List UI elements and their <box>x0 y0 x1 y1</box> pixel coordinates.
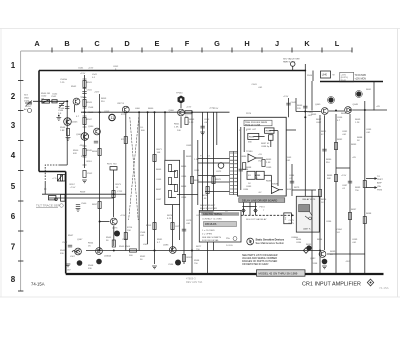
svg-text:R643: R643 <box>297 105 303 107</box>
wire sub vertical <box>44 181 46 194</box>
svg-text:C541: C541 <box>78 68 84 70</box>
svg-text:G: G <box>214 39 220 48</box>
svg-text:P№: P№ <box>226 237 230 240</box>
label E col mid <box>157 149 163 154</box>
resistor R574 <box>112 191 115 198</box>
svg-text:C542: C542 <box>52 94 58 96</box>
wire vertical x133.8 <box>138 112 140 223</box>
svg-text:1.8K: 1.8K <box>60 130 65 132</box>
svg-text:J: J <box>275 39 279 48</box>
svg-text:C652: C652 <box>113 66 119 68</box>
svg-text:R684: R684 <box>243 169 249 171</box>
svg-text:1MΩ: 1MΩ <box>24 98 29 100</box>
spine tick marks C column <box>83 79 87 165</box>
resistor R671 on x154.5 <box>153 155 156 162</box>
wire below attenuator left <box>172 205 174 251</box>
svg-text:R598: R598 <box>194 260 200 262</box>
svg-text:R657: R657 <box>92 204 98 206</box>
wire Q575 column to bottom <box>113 240 115 246</box>
svg-text:C688 5p: C688 5p <box>261 146 270 148</box>
svg-text:C692: C692 <box>342 131 348 133</box>
svg-text:DELAY LINE DRIVER BOARD: DELAY LINE DRIVER BOARD <box>242 198 277 202</box>
svg-text:1M: 1M <box>41 99 44 101</box>
dashed signal line to gray box <box>241 214 294 216</box>
labels near input extra <box>41 94 64 116</box>
svg-text:Q554: Q554 <box>88 126 94 128</box>
svg-text:+15V: +15V <box>186 107 192 109</box>
svg-text:VERT: VERT <box>377 179 383 181</box>
input connector J540 circle <box>28 109 32 113</box>
label C568 <box>140 232 146 237</box>
transistor Q575 <box>110 218 117 225</box>
resistor inside R683 <box>262 160 265 167</box>
svg-text:TILT TRACE SEP: TILT TRACE SEP <box>36 204 60 208</box>
ring around TP648 <box>355 91 362 98</box>
svg-text:+50V: +50V <box>94 92 100 94</box>
labels under Q545 <box>60 127 66 132</box>
wire segment y168 right <box>336 167 350 169</box>
attenuator internal taps <box>170 172 176 198</box>
label R649 <box>355 119 361 124</box>
transistor Q596 <box>169 247 176 254</box>
big box inner rect A <box>248 133 259 139</box>
svg-text:R547: R547 <box>87 119 93 121</box>
svg-text:R645: R645 <box>311 114 317 116</box>
label R685 <box>327 175 333 180</box>
gray box inner dark rect 2 <box>305 212 312 220</box>
label +5V sel <box>352 239 358 244</box>
resistor R571 horizontal <box>110 167 117 170</box>
svg-text:TP680: TP680 <box>246 151 253 153</box>
svg-text:R687 62: R687 62 <box>261 143 270 145</box>
capacitor C687 <box>348 181 352 183</box>
svg-text:R689: R689 <box>355 187 361 189</box>
wire sub left loop <box>45 165 60 181</box>
label +15V line2 <box>333 75 349 82</box>
svg-text:REV JAN 73A: REV JAN 73A <box>186 280 203 284</box>
svg-text:R550: R550 <box>73 150 79 152</box>
label R565 <box>119 246 131 248</box>
label R573 <box>116 184 122 189</box>
svg-text:CR1 INPUT AMPLIFIER: CR1 INPUT AMPLIFIER <box>302 281 361 287</box>
svg-text:C669: C669 <box>186 145 192 147</box>
svg-text:R541: R541 <box>87 82 93 84</box>
label group near 196,220 <box>167 215 173 220</box>
wire Q575 collector <box>113 226 115 240</box>
svg-text:R540 1M: R540 1M <box>41 93 50 95</box>
label Q648 <box>353 104 359 106</box>
gray box inner dark rect 1 <box>299 205 310 212</box>
wire pair lower y198 <box>49 197 114 199</box>
svg-text:R573: R573 <box>116 184 122 186</box>
op-amp U680A <box>248 154 256 162</box>
notes paragraph <box>242 254 278 266</box>
label mid right H col <box>289 175 295 180</box>
switch contact circle <box>55 198 58 201</box>
circled number after label <box>60 204 64 208</box>
svg-text:PARTS LIST: PARTS LIST <box>283 60 296 63</box>
label right col extra 3 <box>326 159 332 164</box>
test point TP575 dark <box>114 231 120 237</box>
resistor R560 box lower on border <box>61 194 65 201</box>
shaded note box bottom <box>257 270 306 276</box>
attenuator internal resistor 2 <box>168 178 171 185</box>
svg-text:R674: R674 <box>167 215 173 217</box>
svg-text:R677: R677 <box>196 246 202 248</box>
transistor Q540 input fet <box>73 98 80 105</box>
wire feed from x67 to sub <box>60 164 67 166</box>
transistor Q564 <box>96 248 103 255</box>
svg-text:R669: R669 <box>186 156 192 158</box>
svg-text:R714: R714 <box>127 227 133 229</box>
big box left pin strip col1 <box>230 153 233 193</box>
label cluster gate divider <box>76 107 94 118</box>
resistor R713b <box>124 137 127 144</box>
resistor R545 vertical <box>66 129 69 136</box>
svg-text:U680: U680 <box>241 156 247 158</box>
test point below Q567 <box>77 260 83 266</box>
capacitor C542 trimmer <box>52 100 57 103</box>
delay line curve 1 <box>130 117 138 220</box>
label R664 <box>185 107 192 119</box>
labels mid band extra <box>101 98 154 116</box>
transistor Q645 <box>321 108 328 115</box>
schematic frame notch vertical <box>65 172 67 274</box>
svg-text:VIA: VIA <box>377 185 381 188</box>
svg-text:+15V MON: +15V MON <box>355 79 367 81</box>
resistor R547 <box>83 118 86 125</box>
svg-text:+15V: +15V <box>120 215 126 217</box>
svg-text:1: 1 <box>11 61 16 70</box>
label under dashed line <box>246 218 267 221</box>
svg-text:R684: R684 <box>317 239 323 241</box>
label +15V line1 <box>340 72 354 82</box>
capacitor C645 on K column <box>303 106 307 108</box>
test point TP645 dark <box>328 97 333 102</box>
svg-text:74-15A: 74-15A <box>31 281 45 286</box>
test point hex TP660 <box>178 96 185 104</box>
svg-text:L660: L660 <box>135 108 141 110</box>
big box extra internal text rows <box>246 129 272 194</box>
svg-text:11: 11 <box>111 116 115 120</box>
attenuator second column rects <box>174 171 177 178</box>
wire vertical x365 <box>364 101 366 273</box>
svg-text:14 JUL: 14 JUL <box>226 245 234 247</box>
svg-text:C548: C548 <box>88 107 94 109</box>
svg-text:+15V: +15V <box>88 68 94 70</box>
wire into box y175.5 <box>198 175 230 177</box>
label G col under bus <box>204 119 210 124</box>
transistor Q554 <box>94 128 101 135</box>
svg-text:C684A: C684A <box>291 236 298 239</box>
svg-text:P674: P674 <box>260 207 266 209</box>
label C684 bottom <box>337 229 343 234</box>
wire input line <box>39 100 67 102</box>
svg-text:Q548: Q548 <box>76 134 82 136</box>
wire branch to Q575 <box>100 221 110 223</box>
svg-text:L541: L541 <box>92 74 98 76</box>
wire x213 lower <box>213 242 215 251</box>
svg-text:P695: P695 <box>377 190 383 192</box>
tick marks above frame C-D <box>113 66 119 71</box>
labels near top right transistor bases <box>311 113 347 116</box>
svg-text:C695: C695 <box>366 129 372 131</box>
svg-text:L565: L565 <box>143 244 149 246</box>
svg-text:R551: R551 <box>87 161 93 163</box>
wire pair upper y194.2 <box>42 193 114 195</box>
gnd on x324 bottom <box>322 266 327 269</box>
wire x197.8 vertical <box>197 140 199 205</box>
svg-text:R681: R681 <box>249 137 255 139</box>
svg-text:U680B: U680B <box>271 184 278 186</box>
svg-text:R678: R678 <box>216 179 222 181</box>
svg-text:R699: R699 <box>330 251 336 253</box>
label R641 <box>366 89 372 91</box>
label between attn and note <box>196 215 202 217</box>
grid ruler horizontal line <box>21 50 352 52</box>
svg-text:TO R.PWR: TO R.PWR <box>355 75 367 77</box>
wire opamp A out <box>256 157 263 159</box>
pin diamond 2 <box>254 209 257 213</box>
wire inside box vertical 1 <box>240 127 242 190</box>
junction to big box top <box>286 129 296 131</box>
label right of x192 lower <box>196 246 202 251</box>
note circled P <box>233 237 237 241</box>
node arrow into frame <box>33 100 39 102</box>
svg-text:R692: R692 <box>337 139 343 141</box>
svg-text:L567: L567 <box>70 256 76 258</box>
label AC left of note box <box>225 210 230 216</box>
svg-text:R564: R564 <box>88 243 94 245</box>
svg-text:C560: C560 <box>81 203 87 205</box>
svg-text:K: K <box>304 39 310 48</box>
svg-text:62K: 62K <box>73 153 77 155</box>
svg-text:1.2K: 1.2K <box>194 159 199 161</box>
inside box resistor <box>243 163 246 170</box>
label left of Q692 <box>312 263 318 265</box>
gnd bottom mid <box>152 266 157 269</box>
label F col low <box>186 220 192 225</box>
svg-text:R655: R655 <box>146 225 152 227</box>
label C567 <box>62 242 68 244</box>
resistor R692 on x336 <box>334 143 337 150</box>
note box outline <box>199 211 241 243</box>
svg-text:TP660: TP660 <box>176 93 183 95</box>
wire vertical x213.5 above note box <box>213 112 215 210</box>
svg-text:1.5K: 1.5K <box>174 127 179 129</box>
wire into box y158.5 <box>198 158 230 160</box>
svg-text:CONTACT CLOSED: CONTACT CLOSED <box>202 218 222 221</box>
resistor R676 <box>206 187 209 194</box>
svg-text:P640: P640 <box>341 80 347 82</box>
wire vertical from input node <box>66 101 68 165</box>
horizontal pair extension <box>114 193 126 195</box>
label R557 <box>70 184 76 189</box>
svg-text:A: A <box>34 39 40 48</box>
svg-text:C689: C689 <box>266 167 272 169</box>
svg-text:SIG OUT VIA DELAY: SIG OUT VIA DELAY <box>246 218 267 221</box>
junction dots on buses <box>66 100 366 251</box>
svg-text:P670 DLY LINE: P670 DLY LINE <box>245 125 261 127</box>
wire note box feed <box>199 211 213 213</box>
fuse box F1 <box>321 71 331 78</box>
test point dark circle below relay box <box>306 245 311 250</box>
svg-text:CR713: CR713 <box>117 103 125 105</box>
trimmer cap C544 <box>59 102 65 108</box>
arrow out lower <box>366 186 378 189</box>
resistor R559 box on border <box>61 175 65 181</box>
svg-text:Q567: Q567 <box>77 239 83 241</box>
svg-text:R542: R542 <box>71 86 77 88</box>
svg-text:C679: C679 <box>186 220 192 222</box>
wire vertical x320 <box>319 115 321 273</box>
label R713b <box>121 139 127 141</box>
svg-text:R543: R543 <box>87 102 93 104</box>
svg-text:C647: C647 <box>316 122 322 124</box>
label above note box <box>200 205 217 210</box>
test point TP692 <box>322 259 328 265</box>
svg-text:TO: TO <box>377 176 380 178</box>
wire main bus y112 <box>81 111 230 113</box>
label right col extra 2 <box>357 137 363 142</box>
wire step at top right border to bus <box>312 71 314 82</box>
small text cluster under Q540 <box>73 150 84 158</box>
svg-text:1.5K: 1.5K <box>266 162 271 164</box>
wire x292 mid drop <box>291 164 293 196</box>
svg-text:7: 7 <box>11 243 16 252</box>
gray box outline <box>296 196 319 232</box>
big box header label bar <box>244 120 272 126</box>
wire big-box drop 1 <box>243 202 245 215</box>
svg-text:R675: R675 <box>289 223 295 225</box>
big box inner rect C <box>247 171 255 179</box>
wire vertical x113.5 <box>113 170 115 217</box>
svg-text:4: 4 <box>11 151 16 160</box>
svg-text:R671: R671 <box>157 149 163 151</box>
svg-text:C646: C646 <box>337 117 343 119</box>
svg-text:C694: C694 <box>296 242 302 244</box>
wire vertical x324.5 <box>324 115 326 250</box>
svg-text:R690: R690 <box>326 159 332 161</box>
resistor R576 <box>112 240 115 247</box>
labels right columns extra <box>321 129 372 146</box>
svg-text:INPUT: INPUT <box>25 106 32 108</box>
wire big-box drop 2 <box>249 202 251 215</box>
+15V supply bus top right <box>320 81 383 83</box>
resistor R663 <box>185 118 188 125</box>
svg-text:L640: L640 <box>322 74 328 77</box>
test point TP596 <box>175 260 181 266</box>
svg-text:SEL VALUE SEE: SEL VALUE SEE <box>283 58 300 61</box>
resistor R675 <box>171 223 174 230</box>
svg-text:R563: R563 <box>106 237 112 239</box>
capacitor C691 on x324 <box>322 149 326 151</box>
svg-text:(DCPL): (DCPL) <box>341 77 349 79</box>
svg-text:L: L <box>335 39 340 48</box>
label P1 C1 <box>200 156 211 158</box>
svg-text:C541A: C541A <box>60 78 67 81</box>
label right col extra 4 <box>352 157 356 159</box>
arrow out upper <box>366 177 378 180</box>
svg-text:1 = CLOSED: 1 = CLOSED <box>202 230 215 232</box>
svg-text:SEE MECH PARTS: SEE MECH PARTS <box>202 236 222 239</box>
svg-text:-15V: -15V <box>66 270 71 272</box>
pin strip boxes <box>230 152 234 195</box>
label R591 <box>157 239 163 244</box>
svg-text:C: C <box>94 39 100 48</box>
svg-text:R697: R697 <box>351 209 357 211</box>
capacitor C546 on vertical <box>65 107 69 109</box>
small box Z675 on dashed line <box>284 213 292 224</box>
svg-text:+15V: +15V <box>341 175 347 177</box>
svg-text:R667: R667 <box>156 189 162 191</box>
svg-text:R679: R679 <box>294 187 300 189</box>
transistor Q545 <box>64 118 72 126</box>
svg-text:C696: C696 <box>326 221 332 223</box>
resistor R657 on x99.6 <box>98 202 101 209</box>
svg-text:R656: R656 <box>92 151 98 153</box>
svg-text:C675: C675 <box>175 226 181 228</box>
wire into box y163 <box>198 162 230 164</box>
wire x312 bottom segment <box>311 190 313 273</box>
page scan edge left <box>0 29 2 298</box>
label C642 <box>291 102 297 104</box>
resistor R597 <box>182 255 185 262</box>
resistor R689 <box>363 181 366 188</box>
note box darker header <box>201 212 239 215</box>
capacitor C644 <box>290 181 294 183</box>
svg-text:R696: R696 <box>321 199 327 201</box>
svg-text:H: H <box>244 39 249 48</box>
svg-text:C667: C667 <box>156 199 162 201</box>
components chain above Q540: resistor R541 <box>83 81 86 88</box>
wire bottom right segment <box>327 253 365 255</box>
svg-text:R644: R644 <box>286 189 292 191</box>
wire bottom bus y250.5 <box>86 250 319 252</box>
test point under Q564 <box>96 259 102 265</box>
big box left pin strip col2 <box>234 153 237 193</box>
gnd under input stage <box>82 180 87 183</box>
svg-text:2: 2 <box>11 92 16 101</box>
wire x207 lower <box>207 242 209 273</box>
transistor Q567 <box>75 248 82 255</box>
grid ruler row numbers <box>11 61 16 284</box>
labels above bottom bus <box>106 237 149 246</box>
gnd under R545 <box>66 138 71 141</box>
svg-text:R641: R641 <box>366 89 372 91</box>
svg-text:C552: C552 <box>87 173 93 175</box>
inductor L567 <box>72 251 80 253</box>
wire bus segment right 1 <box>296 111 321 113</box>
label P674 pin <box>260 207 266 213</box>
svg-text:C544: C544 <box>58 110 64 112</box>
resistor R566 <box>130 249 137 252</box>
svg-text:C699: C699 <box>352 239 358 241</box>
svg-text:AMP: AMP <box>377 182 382 185</box>
labels inside top of big box near edge <box>239 130 248 132</box>
svg-text:R698: R698 <box>366 213 372 215</box>
svg-text:AC: AC <box>225 210 228 213</box>
svg-text:P640: P640 <box>307 75 313 77</box>
svg-text:F: F <box>185 39 190 48</box>
wire top of big box from border junction <box>304 64 306 196</box>
svg-text:-15V: -15V <box>345 261 350 263</box>
wire D col lower segment <box>125 114 127 251</box>
wire inside box vertical 2 <box>243 127 245 152</box>
svg-text:465 MLRS: 465 MLRS <box>205 223 217 226</box>
attenuator box <box>165 160 180 204</box>
svg-text:C596: C596 <box>168 264 174 266</box>
